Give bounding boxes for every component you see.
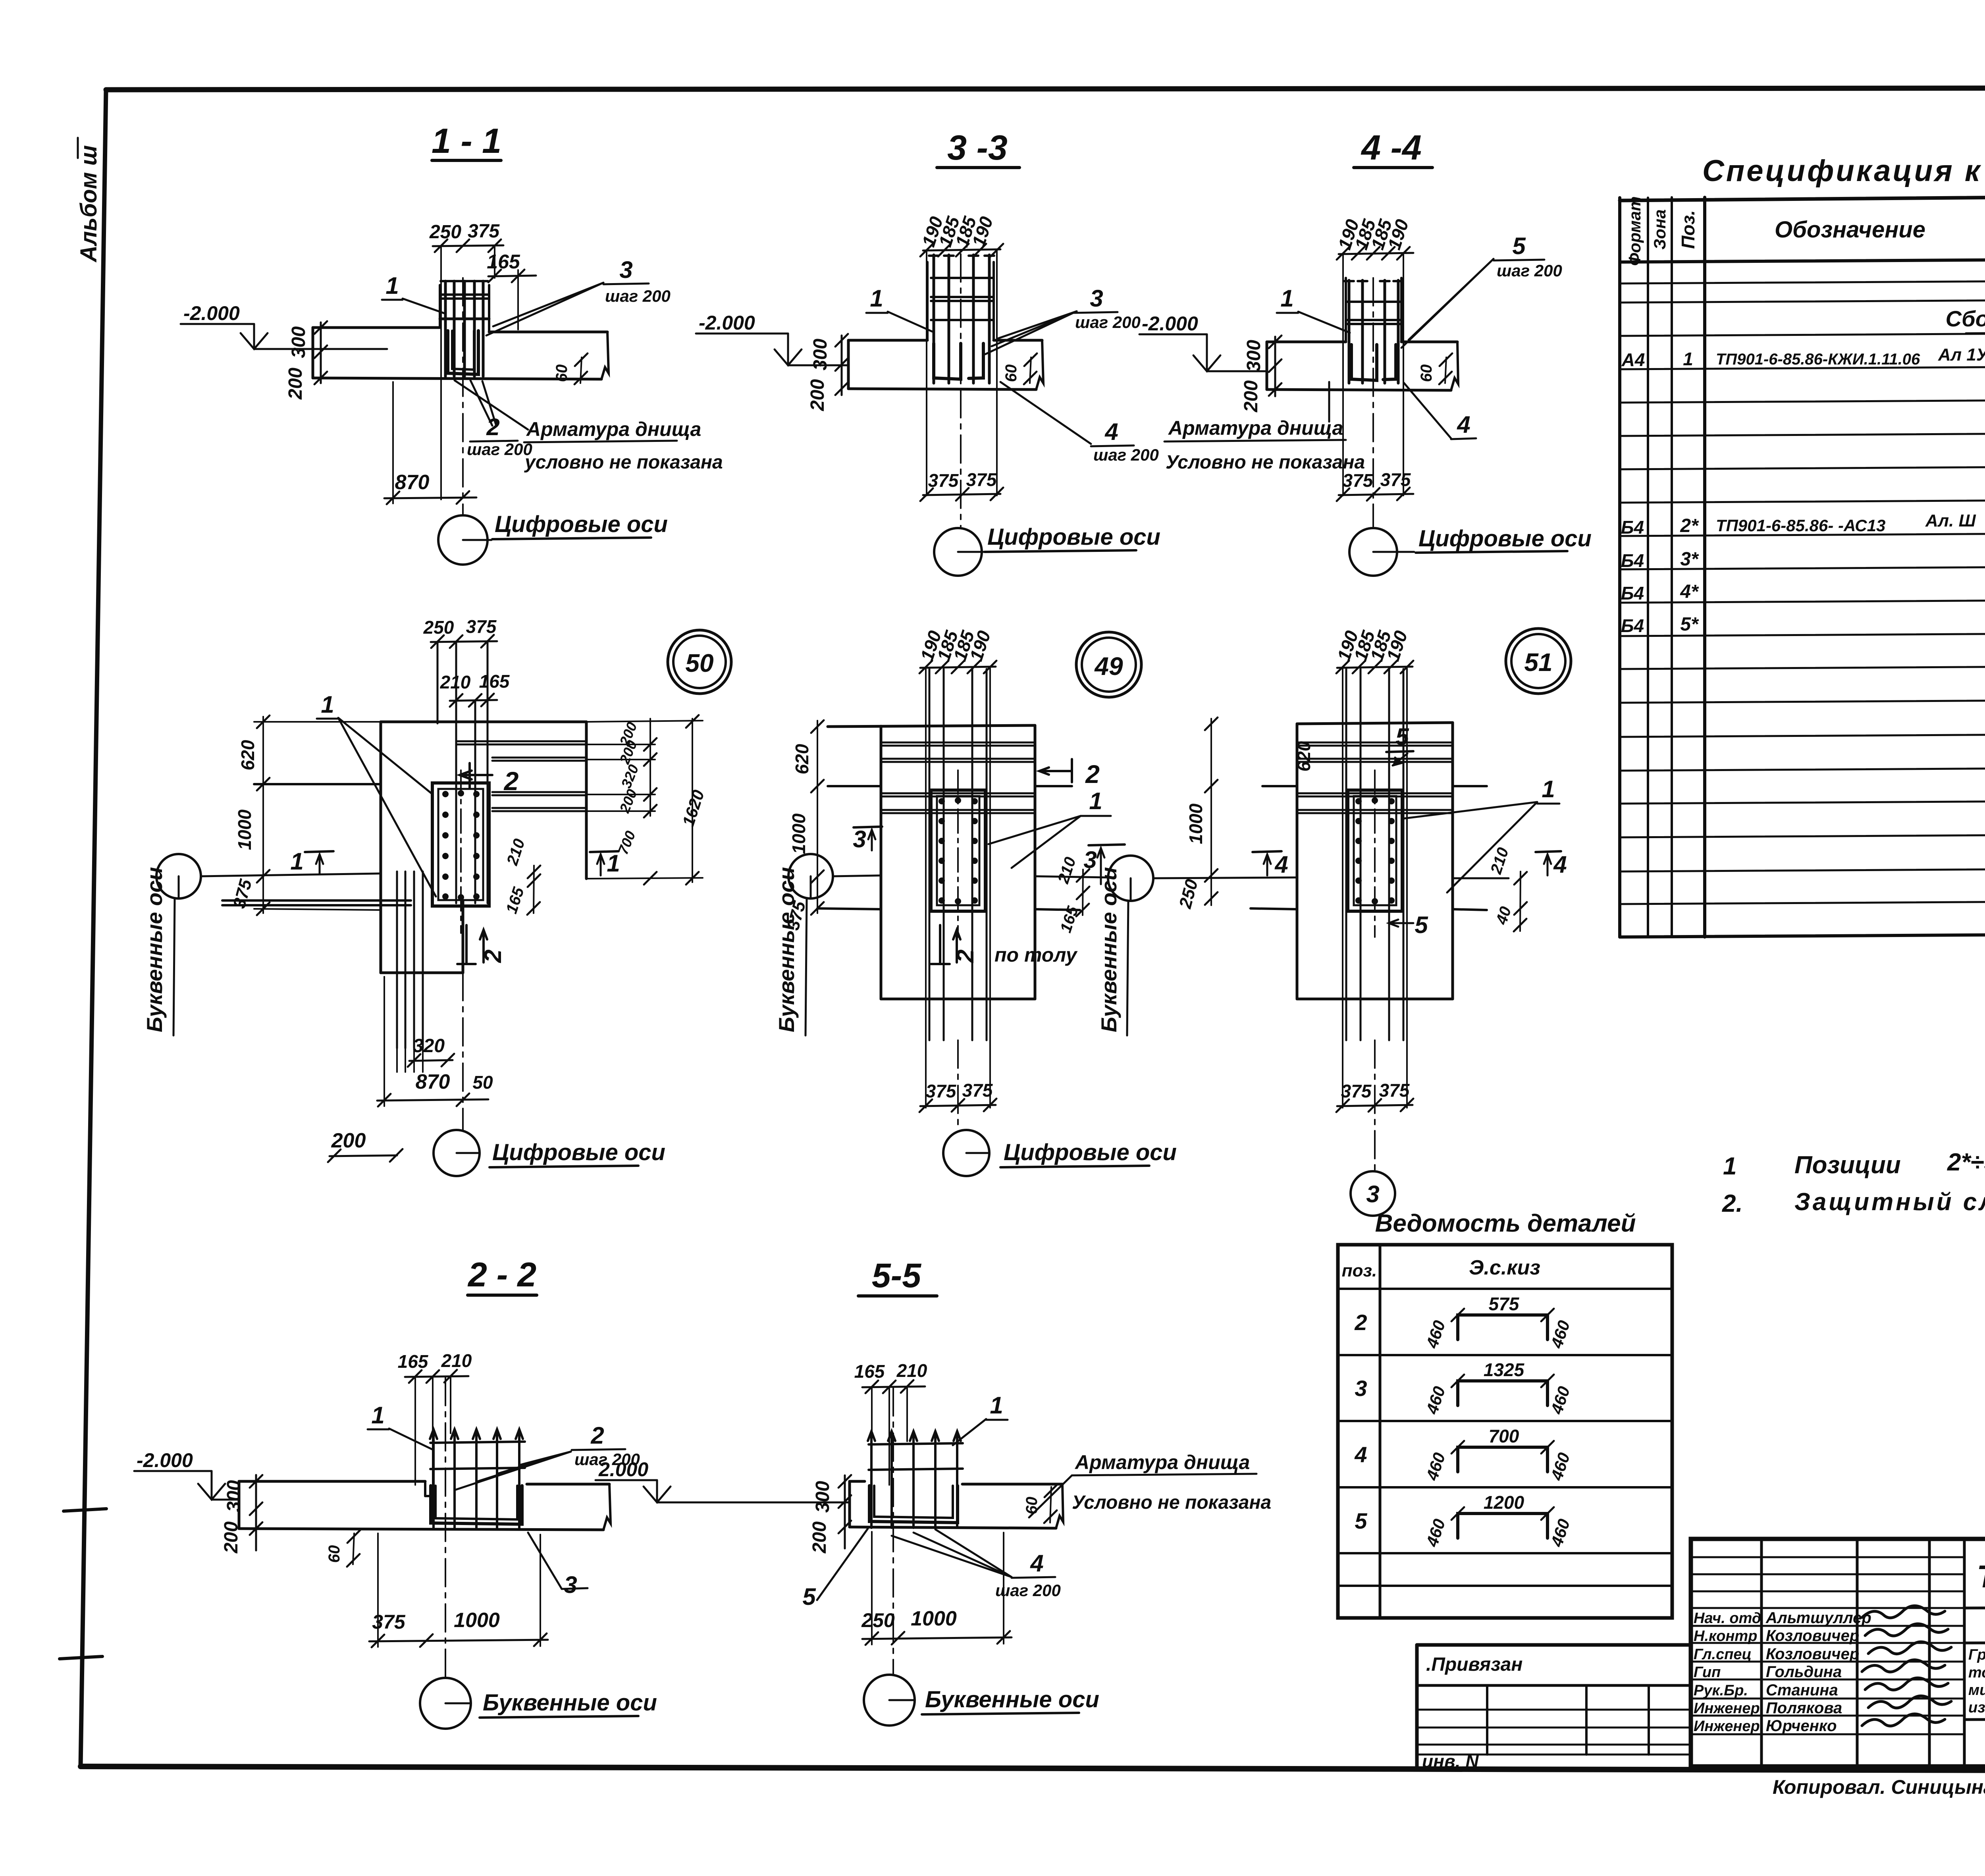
svg-text:Буквенные оси: Буквенные оси — [1097, 867, 1121, 1032]
svg-text:-2.000: -2.000 — [699, 312, 755, 334]
svg-text:инв. N: инв. N — [1422, 1751, 1479, 1772]
svg-text:250: 250 — [861, 1609, 895, 1631]
svg-text:Арматура днища: Арматура днища — [1074, 1451, 1250, 1473]
svg-text:Формат: Формат — [1625, 196, 1644, 266]
svg-text:200: 200 — [807, 379, 828, 411]
svg-text:шаг 200: шаг 200 — [1075, 313, 1141, 332]
svg-text:торами 3ВГ25 капельная с секц: торами 3ВГ25 капельная с секция- — [1968, 1664, 1985, 1681]
svg-text:210: 210 — [896, 1360, 927, 1381]
page border frame — [106, 88, 1985, 90]
svg-text:Б4: Б4 — [1621, 517, 1644, 538]
svg-text:3: 3 — [1090, 285, 1103, 312]
svg-text:Нач. отд: Нач. отд — [1694, 1610, 1761, 1627]
svg-text:1000: 1000 — [911, 1607, 957, 1630]
svg-text:375: 375 — [466, 616, 497, 637]
svg-text:4*: 4* — [1680, 581, 1699, 602]
svg-text:Б4: Б4 — [1621, 583, 1644, 603]
svg-text:1000: 1000 — [454, 1609, 500, 1632]
svg-text:300: 300 — [812, 1481, 833, 1513]
svg-text:165: 165 — [479, 671, 510, 692]
svg-text:250: 250 — [429, 222, 461, 243]
svg-text:1: 1 — [371, 1402, 384, 1429]
svg-text:Буквенные оси: Буквенные оси — [774, 867, 799, 1032]
svg-text:4: 4 — [1030, 1550, 1043, 1577]
svg-text:Полякова: Полякова — [1766, 1699, 1842, 1717]
svg-text:2 - 2: 2 - 2 — [467, 1256, 536, 1294]
svg-text:Гип: Гип — [1694, 1664, 1721, 1681]
svg-text:Б4: Б4 — [1621, 550, 1644, 571]
svg-text:1 - 1: 1 - 1 — [432, 121, 501, 160]
svg-text:Цифровые оси: Цифровые оси — [495, 511, 668, 537]
svg-text:1: 1 — [870, 285, 883, 312]
svg-text:620: 620 — [792, 744, 812, 774]
svg-text:Цифровые оси: Цифровые оси — [1418, 526, 1592, 551]
svg-text:375: 375 — [926, 1081, 957, 1101]
svg-text:700: 700 — [1489, 1426, 1519, 1446]
svg-text:320: 320 — [413, 1035, 445, 1057]
svg-text:-2.000: -2.000 — [1142, 312, 1198, 335]
svg-text:250: 250 — [423, 617, 454, 638]
svg-text:Спецификация к узлам 49.5: Спецификация к узлам 49.50.51 — [1702, 154, 1985, 188]
svg-text:-2.000: -2.000 — [137, 1449, 193, 1471]
svg-text:Арматура днища: Арматура днища — [526, 418, 701, 440]
svg-text:2: 2 — [952, 949, 979, 963]
svg-text:4: 4 — [1104, 418, 1118, 445]
svg-text:50: 50 — [472, 1072, 493, 1093]
svg-text:200: 200 — [221, 1521, 242, 1554]
svg-text:165: 165 — [398, 1351, 429, 1372]
svg-text:51: 51 — [1524, 648, 1552, 677]
svg-text:Рук.Бр.: Рук.Бр. — [1694, 1682, 1748, 1699]
svg-text:Буквенные оси: Буквенные оси — [483, 1690, 657, 1716]
svg-text:условно не показана: условно не показана — [524, 452, 723, 473]
svg-text:4: 4 — [1354, 1442, 1367, 1467]
svg-text:300: 300 — [224, 1480, 245, 1512]
svg-text:300: 300 — [1243, 340, 1264, 372]
svg-text:1: 1 — [1089, 788, 1102, 814]
svg-text:60: 60 — [326, 1545, 343, 1563]
svg-text:5: 5 — [1355, 1508, 1367, 1533]
title block — [1691, 1539, 1985, 1766]
svg-text:1200: 1200 — [1484, 1492, 1524, 1513]
svg-text:Гольдина: Гольдина — [1766, 1663, 1842, 1681]
svg-text:60: 60 — [1023, 1497, 1041, 1515]
svg-text:Альбом ш: Альбом ш — [76, 145, 102, 263]
svg-text:Защитный слой бетона в узл: Защитный слой бетона в узлах - 25 мм. — [1794, 1188, 1985, 1216]
svg-text:375: 375 — [1341, 1081, 1372, 1101]
svg-text:Н.контр: Н.контр — [1694, 1628, 1757, 1645]
svg-text:Обозначение: Обозначение — [1775, 217, 1925, 243]
svg-text:2: 2 — [480, 949, 506, 963]
svg-text:5: 5 — [1415, 912, 1428, 938]
svg-text:4: 4 — [1457, 411, 1470, 438]
svg-text:Цифровые оси: Цифровые оси — [492, 1139, 665, 1165]
svg-text:1000: 1000 — [1185, 803, 1206, 844]
svg-text:А4: А4 — [1621, 349, 1645, 370]
svg-text:шаг 200: шаг 200 — [1497, 261, 1562, 280]
svg-text:Инженер: Инженер — [1694, 1718, 1760, 1735]
svg-text:Ал. Ш: Ал. Ш — [1925, 511, 1976, 530]
svg-text:2.: 2. — [1722, 1190, 1743, 1217]
svg-text:60: 60 — [1418, 364, 1435, 382]
svg-text:.Привязан: .Привязан — [1426, 1654, 1522, 1675]
svg-text:60: 60 — [553, 364, 570, 382]
svg-text:Сборочные единицы: Сборочные единицы — [1946, 306, 1985, 331]
svg-text:шаг 200: шаг 200 — [1093, 445, 1159, 464]
svg-text:1: 1 — [990, 1392, 1003, 1419]
svg-text:шаг 200: шаг 200 — [467, 440, 532, 459]
svg-text:1: 1 — [290, 848, 303, 875]
svg-text:375: 375 — [966, 469, 997, 490]
svg-text:5: 5 — [1395, 723, 1409, 750]
svg-text:1: 1 — [607, 850, 620, 877]
svg-text:5: 5 — [802, 1583, 816, 1610]
svg-text:620: 620 — [1293, 741, 1314, 771]
svg-text:2: 2 — [1354, 1310, 1367, 1335]
svg-text:5: 5 — [1512, 233, 1526, 259]
svg-text:300: 300 — [810, 339, 831, 370]
svg-text:1000: 1000 — [788, 813, 809, 854]
svg-text:870: 870 — [416, 1070, 450, 1093]
plan node 50 — [668, 630, 731, 694]
svg-text:50: 50 — [685, 649, 713, 677]
svg-text:375: 375 — [962, 1080, 993, 1101]
svg-text:3: 3 — [619, 256, 632, 283]
svg-text:165: 165 — [854, 1361, 885, 1382]
svg-text:200: 200 — [809, 1521, 830, 1554]
svg-text:1: 1 — [1542, 776, 1555, 802]
svg-text:Буквенные оси: Буквенные оси — [142, 867, 167, 1032]
privyazan block — [1417, 1643, 1691, 1647]
svg-text:3: 3 — [1355, 1376, 1367, 1401]
svg-text:375: 375 — [1379, 1080, 1410, 1101]
svg-text:2.000: 2.000 — [598, 1458, 648, 1481]
svg-text:620: 620 — [237, 740, 258, 770]
svg-text:4: 4 — [1274, 851, 1288, 878]
svg-text:3 -3: 3 -3 — [947, 128, 1008, 167]
svg-text:Цифровые оси: Цифровые оси — [1004, 1139, 1177, 1165]
svg-text:Буквенные оси: Буквенные оси — [925, 1687, 1099, 1712]
svg-text:Юрченко: Юрченко — [1766, 1717, 1837, 1735]
svg-text:4 -4: 4 -4 — [1361, 128, 1422, 167]
svg-text:шаг 200: шаг 200 — [605, 287, 671, 305]
svg-text:1: 1 — [1280, 285, 1293, 312]
svg-text:ТП901-6-85.86- -АС13: ТП901-6-85.86- -АС13 — [1716, 516, 1885, 535]
svg-text:шаг 200: шаг 200 — [995, 1581, 1061, 1600]
svg-text:200: 200 — [331, 1129, 366, 1152]
svg-text:2: 2 — [503, 766, 519, 796]
svg-text:поз.: поз. — [1342, 1261, 1377, 1280]
svg-text:Альтшуллер: Альтшуллер — [1765, 1609, 1871, 1627]
svg-text:3: 3 — [853, 826, 866, 852]
plan node 49 — [1076, 632, 1141, 697]
svg-text:375: 375 — [1343, 470, 1374, 491]
svg-text:1: 1 — [1683, 349, 1693, 369]
svg-text:375: 375 — [1380, 469, 1411, 490]
svg-text:200: 200 — [1241, 380, 1262, 413]
svg-text:1: 1 — [1723, 1153, 1736, 1180]
svg-text:3: 3 — [1366, 1181, 1379, 1207]
svg-text:Ал 1У: Ал 1У — [1938, 345, 1985, 364]
svg-text:ТП 901- Б- 85.86 -: ТП 901- Б- 85.86 - — [1977, 1559, 1985, 1594]
svg-text:Станина: Станина — [1766, 1681, 1838, 1699]
svg-text:-2.000: -2.000 — [183, 302, 240, 324]
svg-text:2: 2 — [1085, 760, 1100, 789]
svg-text:по толу: по толу — [994, 944, 1078, 966]
svg-text:2*÷5*: 2*÷5* — [1947, 1149, 1985, 1176]
svg-text:375: 375 — [372, 1611, 406, 1633]
svg-text:Ведомость деталей: Ведомость деталей — [1375, 1210, 1636, 1237]
svg-text:Инженер: Инженер — [1694, 1700, 1760, 1717]
svg-text:из железобетонных элементов: из железобетонных элементов — [1968, 1699, 1985, 1716]
svg-text:575: 575 — [1489, 1294, 1520, 1314]
svg-text:5*: 5* — [1680, 614, 1699, 635]
svg-text:5-5: 5-5 — [872, 1257, 921, 1295]
svg-text:Гл.спец: Гл.спец — [1694, 1646, 1752, 1663]
svg-text:375: 375 — [468, 221, 500, 242]
svg-text:1: 1 — [385, 272, 399, 299]
svg-text:60: 60 — [1002, 364, 1020, 382]
svg-text:165: 165 — [487, 251, 520, 273]
svg-text:ми площадью 24м² с каркасом: ми площадью 24м² с каркасом — [1968, 1682, 1985, 1699]
svg-text:1: 1 — [321, 691, 334, 718]
svg-text:Зона: Зона — [1650, 209, 1669, 249]
svg-text:200: 200 — [285, 368, 306, 400]
svg-text:4: 4 — [1553, 851, 1567, 878]
svg-text:49: 49 — [1094, 652, 1123, 681]
svg-text:300: 300 — [288, 326, 309, 358]
svg-text:Копировал. Синицына: Копировал. Синицына — [1773, 1776, 1985, 1798]
svg-text:1325: 1325 — [1484, 1359, 1525, 1380]
svg-text:Козловичер: Козловичер — [1766, 1645, 1859, 1663]
svg-text:Б4: Б4 — [1621, 615, 1644, 636]
svg-text:2*: 2* — [1680, 515, 1699, 536]
svg-text:Условно не показана: Условно не показана — [1072, 1492, 1271, 1513]
svg-text:210: 210 — [441, 1350, 472, 1371]
svg-text:Условно не показана: Условно не показана — [1166, 452, 1365, 473]
svg-text:Поз.: Поз. — [1678, 210, 1698, 249]
svg-text:Позиции: Позиции — [1794, 1151, 1901, 1179]
svg-text:Цифровые оси: Цифровые оси — [987, 524, 1160, 550]
svg-text:Градирня двухсекционная с вен: Градирня двухсекционная с вентиля- — [1968, 1647, 1985, 1663]
svg-text:1000: 1000 — [234, 809, 255, 850]
svg-text:2: 2 — [590, 1422, 604, 1449]
svg-text:3: 3 — [564, 1571, 577, 1598]
svg-text:Козловичер: Козловичер — [1766, 1627, 1859, 1645]
svg-text:3*: 3* — [1680, 549, 1699, 570]
svg-text:870: 870 — [395, 471, 430, 494]
svg-text:Арматура днища: Арматура днища — [1168, 417, 1343, 439]
svg-text:ТП901-6-85.86-КЖИ.1.11.06: ТП901-6-85.86-КЖИ.1.11.06 — [1716, 351, 1920, 368]
plan node 51 — [1506, 629, 1571, 694]
svg-text:Э.с.киз: Э.с.киз — [1469, 1256, 1540, 1279]
